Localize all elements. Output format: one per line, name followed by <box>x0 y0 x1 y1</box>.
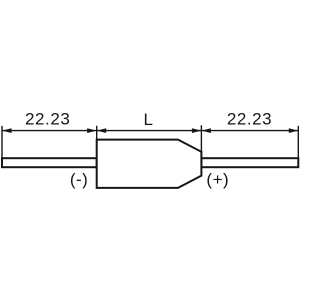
right lead <box>201 158 298 167</box>
dimension line left 22.23 <box>2 130 97 132</box>
svg-text:22.23: 22.23 <box>25 110 70 129</box>
svg-text:(+): (+) <box>206 170 229 189</box>
arrowhead right-pointing at far right <box>289 128 299 133</box>
left lead <box>2 158 97 167</box>
extension line body left edge <box>96 126 98 140</box>
dimension line middle L <box>97 130 202 132</box>
arrowhead left-pointing at body right edge <box>201 128 211 133</box>
arrowhead left-pointing at body left edge <box>97 128 107 133</box>
component body (axial capacitor, tapered positive end) <box>97 140 202 188</box>
arrowhead right-pointing at body left edge <box>87 128 97 133</box>
svg-text:22.23: 22.23 <box>227 110 272 129</box>
extension line far left <box>1 126 3 158</box>
extension line far right <box>297 126 299 158</box>
svg-text:(-): (-) <box>70 170 88 189</box>
svg-text:L: L <box>143 110 152 129</box>
extension line body right edge <box>200 125 202 152</box>
arrowhead left-pointing at far left <box>2 128 12 133</box>
arrowhead right-pointing at body right edge <box>192 128 202 133</box>
dimension line right 22.23 <box>201 130 298 132</box>
